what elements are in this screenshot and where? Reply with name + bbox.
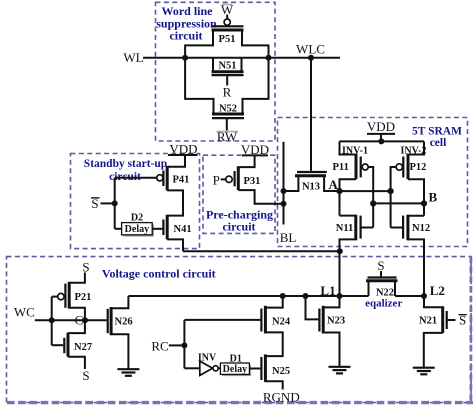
title: 5T SRAM cell (412, 126, 462, 150)
transistor P31 gate bubble (226, 176, 232, 182)
transistor P11 source lead (340, 141, 357, 154)
pre-charging circuit box (203, 155, 275, 233)
wire N11 drain lead (340, 215, 356, 217)
svg-text:eqalizer: eqalizer (365, 297, 402, 309)
svg-text:Delay: Delay (125, 224, 149, 235)
transistor N24 channel (264, 306, 267, 334)
delay D2 box shadow (123, 224, 154, 236)
svg-text:L2: L2 (430, 283, 445, 298)
wire P21 drain down to C (69, 308, 85, 321)
wire N12 gate lead (391, 227, 404, 229)
svg-text:N11: N11 (336, 223, 354, 234)
wire N41 output rail to SRAM sources (183, 250, 340, 252)
node RW gray overline (217, 131, 239, 133)
svg-text:P11: P11 (333, 162, 349, 173)
node B dot (421, 200, 427, 206)
transistor N23 channel (322, 306, 325, 334)
node L1 dot at N24 (280, 293, 286, 299)
wire N21 drain from L2 (424, 296, 443, 307)
svg-text:WLC: WLC (296, 42, 325, 57)
transistor N13 channel (295, 174, 326, 177)
wire RC to N24 gate (184, 319, 260, 321)
node A rail right dot (388, 188, 394, 194)
transistor P11 gate bubble (362, 164, 368, 170)
node L2 dot (421, 293, 427, 299)
svg-text:P31: P31 (244, 176, 261, 187)
transistor N13 legs and leads (284, 176, 340, 191)
transistor N27 channel (67, 333, 70, 357)
wire P41 gate lead (115, 177, 157, 179)
svg-text:P51: P51 (219, 34, 236, 45)
net VDD bar (standby) (168, 154, 198, 156)
transistor N26 channel (110, 307, 113, 335)
transistor N13 gate bar (297, 171, 327, 173)
wire S stub to P21 source (69, 273, 85, 283)
wire N26 source to ground (111, 334, 128, 369)
transistor N21 channel (441, 306, 444, 333)
transistor P21 channel (68, 282, 71, 309)
wire P12 gate to A vertical (391, 167, 397, 228)
wire N25 source to RGND (265, 381, 282, 389)
transistor P51 gate bar (212, 25, 244, 27)
delay D2 box (122, 223, 153, 235)
voltage control box thick right edge (469, 257, 472, 401)
delay D1 box (220, 363, 249, 374)
transistor N12 channel (406, 215, 409, 241)
transistor N22 legs (369, 281, 396, 296)
svg-text:N26: N26 (115, 317, 133, 328)
wire RC vertical (183, 320, 185, 368)
title: Pre-charging circuit (206, 207, 273, 233)
node VDD rail dot (378, 138, 384, 144)
node L1 dot main (337, 293, 343, 299)
svg-text:N13: N13 (302, 181, 320, 192)
wire RC input (169, 344, 185, 346)
wire P to gate bubble (221, 178, 226, 180)
svg-text:Standby start-up: Standby start-up (84, 158, 167, 170)
svg-text:N24: N24 (272, 317, 291, 328)
transistor P11 channel (355, 154, 358, 180)
transistor P12 gate bar (402, 157, 404, 178)
wire VDD rail (340, 140, 425, 142)
wire VDD stub to rail (380, 134, 382, 142)
transistor P51 gate bubble (224, 19, 230, 25)
transistor N27 gate bar (63, 338, 65, 354)
transistor P41 channel (166, 166, 169, 191)
wire N24 drain up to L1 (265, 296, 282, 308)
node BL-N13 dot (281, 188, 287, 194)
node A dot (336, 188, 342, 194)
transistor N23 gate bar (318, 309, 320, 332)
svg-text:N23: N23 (327, 316, 345, 327)
svg-text:P: P (213, 172, 220, 187)
transistor P21 gate bubble (58, 293, 64, 299)
ground symbol under N21 (413, 368, 435, 375)
svg-text:N27: N27 (74, 342, 92, 353)
wire VDD stub to P41 (168, 155, 185, 167)
wire N21 source to ground (424, 333, 443, 368)
svg-text:Delay: Delay (223, 364, 247, 375)
svg-text:P41: P41 (173, 175, 190, 186)
voltage control box thick bottom edge (7, 401, 473, 404)
transistor N21 gate bar (446, 311, 448, 329)
wire N12 source down to L2 (408, 239, 424, 296)
transistor N52 gate bar (212, 117, 244, 119)
wire delay D1 to N25 gate (249, 368, 260, 370)
transistor P12 source lead (408, 141, 424, 154)
svg-text:N41: N41 (174, 224, 192, 235)
node W gray overline (222, 3, 232, 5)
svg-text:RW: RW (217, 129, 238, 144)
svg-text:N25: N25 (272, 366, 290, 377)
wire N23 drain up to L1 (323, 296, 339, 307)
svg-text:N51: N51 (218, 61, 236, 72)
svg-text:P12: P12 (410, 162, 427, 173)
transistor N11 channel (354, 215, 357, 241)
svg-text:BL: BL (280, 230, 297, 245)
wire WC input (35, 319, 85, 321)
wire INV to delay D1 (218, 367, 220, 369)
node B rail left dot (370, 200, 376, 206)
5T SRAM cell box (278, 118, 468, 247)
wire VDD stub to P31 (239, 155, 254, 167)
title: Standby start-up circuit (84, 158, 167, 183)
svg-text:5T SRAM: 5T SRAM (412, 126, 462, 138)
wire N12 drain lead (408, 215, 424, 217)
transistor N12 gate bar (402, 216, 404, 239)
ground symbol under N26 (117, 369, 139, 376)
transistor P11 gate bar (360, 157, 362, 178)
wire N23 gate from L1 (306, 296, 319, 319)
wire L1 rail (128, 295, 368, 297)
node N41 rail junction dot (337, 248, 343, 254)
wire N21 gate lead (447, 319, 456, 321)
transistor P31 gate bar (234, 171, 236, 186)
node RC junction dot (181, 342, 187, 348)
node WC junction dot (49, 317, 55, 323)
net VDD bar (SRAM) (367, 133, 395, 135)
wire S-bar input (101, 202, 115, 204)
svg-text:circuit: circuit (222, 220, 255, 234)
node WL junction dot (182, 55, 188, 61)
node S-bar overline at N21 (459, 314, 467, 316)
wire N26 drain up to L1 rail (111, 296, 128, 308)
wire N24 source to N25 drain (265, 332, 282, 356)
transistor N41 channel (166, 215, 169, 240)
transistor P12 gate bubble (396, 164, 402, 170)
wire P31 drain to BL (238, 190, 283, 204)
svg-text:INV: INV (198, 352, 217, 363)
net VDD bar (precharge) (242, 154, 268, 156)
wire node B rail (373, 202, 424, 204)
wire N27 drain up to C (68, 320, 85, 333)
wire N23 source to ground (323, 333, 339, 367)
transistor N22 channel (366, 279, 398, 282)
transistor N26 gate bar (107, 309, 109, 333)
wire left branch vertical (184, 45, 186, 100)
svg-text:RC: RC (151, 338, 168, 353)
transistor N27 gate lead (52, 344, 64, 346)
title: Word line suppression circuit (156, 4, 217, 43)
svg-text:L1: L1 (320, 283, 335, 298)
transistor P41 gate bubble (157, 175, 163, 181)
wire N27 source stub to S (68, 357, 85, 369)
wire N11 gate lead (361, 227, 374, 229)
wire R gate stub (226, 76, 228, 86)
wire L2 rail (395, 295, 424, 297)
node WLC junction dot (266, 55, 272, 61)
transistor P51 legs and arms (185, 30, 268, 45)
wire C to N26 gate (85, 319, 107, 321)
wire node A rail (340, 190, 391, 192)
svg-text:Voltage control circuit: Voltage control circuit (102, 267, 216, 281)
transistor N11 gate bar (360, 216, 362, 239)
node S-bar junction dot (112, 200, 118, 206)
svg-text:R: R (223, 85, 232, 100)
wire N41 source down (167, 239, 183, 251)
transistor N22 gate bar (368, 276, 397, 278)
svg-text:circuit: circuit (169, 29, 202, 43)
wire WLC drop to N13 gate (310, 58, 312, 171)
svg-text:N12: N12 (412, 223, 430, 234)
transistor N52 arms and legs (185, 99, 268, 114)
transistor P21 gate bar (64, 284, 66, 308)
wire delay D2 to N41 gate (152, 228, 162, 230)
node L1 dot at N23 gate (303, 293, 309, 299)
node C junction dot (82, 317, 88, 323)
wire W stub (226, 15, 228, 19)
wire S-bar to delay D2 (115, 228, 122, 230)
ground symbol under N23 (329, 367, 351, 374)
wire P21 gate lead (52, 296, 58, 298)
transistor N24 gate bar (260, 309, 262, 332)
inverter INV bubble (213, 366, 218, 371)
node BL-P31 dot (281, 201, 287, 207)
node S-bar overline (91, 197, 100, 199)
wire BL vertical (283, 142, 285, 225)
delay D1 box shadow (222, 365, 251, 376)
node WLC drop junction dot (308, 55, 314, 61)
svg-text:WL: WL (123, 50, 143, 65)
svg-text:S: S (82, 260, 89, 275)
wire WL horizontal (143, 57, 340, 59)
svg-text:P21: P21 (75, 292, 92, 303)
transistor N41 gate bar (162, 220, 164, 236)
wire S stub to N22 gate (380, 271, 382, 276)
wire P11 gate to B vertical (368, 167, 373, 228)
svg-text:S: S (377, 258, 384, 273)
svg-text:N21: N21 (419, 316, 437, 327)
svg-text:S: S (82, 368, 89, 383)
svg-text:WC: WC (14, 305, 35, 320)
transistor N51 channel (212, 70, 244, 73)
inverter INV triangle (200, 361, 213, 375)
transistor N25 gate bar (260, 357, 262, 380)
transistor P12 channel (407, 154, 410, 180)
wire P11 drain to node A (340, 179, 357, 215)
svg-text:cell: cell (430, 137, 447, 149)
transistor N51 legs (213, 58, 242, 72)
svg-text:VDD: VDD (367, 119, 395, 134)
wire P12 drain to node B (408, 179, 424, 216)
wire N11 source down to L1 (340, 239, 356, 296)
wire RW gate stub (226, 119, 228, 131)
svg-text:B: B (428, 189, 437, 204)
voltage control circuit box (7, 257, 472, 403)
transistor P51 channel (212, 29, 244, 32)
wire right branch vertical (268, 45, 270, 100)
standby start-up circuit box (71, 154, 200, 249)
wire RC to INV (184, 367, 199, 369)
transistor P41 gate bar (162, 171, 164, 187)
transistor N52 channel (212, 113, 244, 116)
wire P41 drain to N41 drain (167, 190, 183, 215)
wire WC gate vertical (51, 297, 53, 346)
svg-text:RGND: RGND (263, 390, 300, 405)
transistor N25 channel (264, 354, 267, 382)
word line suppression circuit box (156, 2, 276, 141)
wire S-bar vertical (114, 178, 116, 229)
transistor P31 channel (237, 166, 240, 190)
transistor N51 gate bar (212, 74, 244, 76)
